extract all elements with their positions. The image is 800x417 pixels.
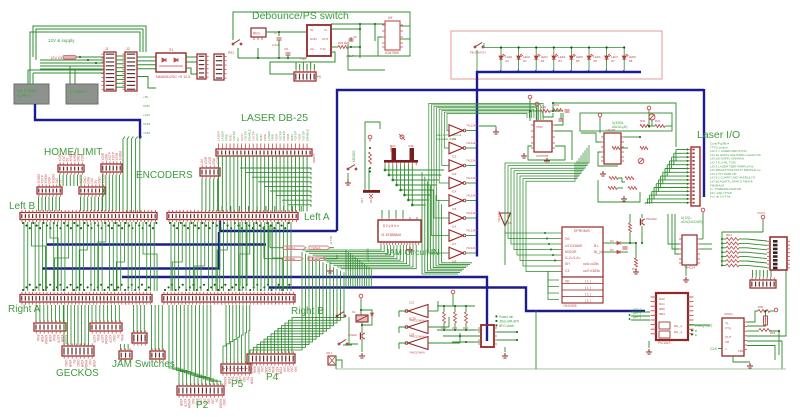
svg-text:RN1: RN1 [726, 233, 732, 237]
svg-text:74L2244: 74L2244 [466, 211, 477, 215]
svg-text:XSTP: XSTP [92, 335, 96, 343]
connector X1 DB25 pin labels [217, 129, 310, 149]
svg-text:CH: CH [310, 47, 314, 51]
junction U7 net [257, 57, 259, 59]
ic U2 EPROM [562, 227, 603, 277]
svg-text:JAM Switches: JAM Switches [112, 359, 175, 370]
svg-text:A 7.5V: A 7.5V [329, 236, 333, 244]
wire U12 nets [668, 214, 712, 276]
op-amp buffer T3 [449, 160, 463, 172]
svg-text:P5: P5 [231, 379, 244, 390]
svg-text:LIM: LIM [260, 367, 264, 373]
svg-text:ICM7555: ICM7555 [385, 51, 399, 55]
node JP2 list [496, 315, 519, 328]
op-amp buffer T4 [449, 177, 463, 189]
transistor Q2 [642, 219, 645, 225]
svg-text:74L2244: 74L2244 [466, 176, 477, 180]
ground flags [327, 268, 333, 273]
svg-text:YDIR: YDIR [80, 360, 84, 368]
bus B5 left A [220, 221, 337, 232]
wire mosfet riser [365, 122, 380, 190]
svg-text:IC7: IC7 [452, 242, 457, 246]
wire RightB staircase to P4 P5 P2 [169, 252, 344, 385]
wire LeftA bottom long drops [240, 222, 272, 286]
svg-text:74L2244: 74L2244 [466, 229, 477, 233]
ic U9 ICM7555 [385, 21, 400, 50]
svg-text:IC3: IC3 [452, 172, 457, 176]
junction eprom feeds [544, 232, 546, 234]
svg-text:R52: R52 [770, 331, 776, 335]
connector X1 DB25 strip [216, 149, 312, 156]
op-amp buffer T6 [449, 212, 463, 224]
vcc U11 [647, 106, 651, 112]
optocoupler S1 NMA0512SC [156, 53, 186, 72]
capacitor C12 [565, 110, 570, 112]
wire J2 to opto S1 [137, 57, 156, 88]
ic U5 ULN2803 JAM [378, 220, 421, 242]
net flag XGND [283, 246, 306, 250]
wire freq out [688, 324, 710, 326]
resistor R36 [608, 187, 617, 190]
svg-text:XHOM: XHOM [118, 151, 122, 161]
svg-text:XHOM: XHOM [223, 377, 227, 387]
connector JSW3 [150, 351, 165, 359]
connector RIGHT A [20, 295, 152, 303]
junction U11 [648, 125, 650, 127]
wire mid loop vertical [535, 311, 537, 369]
capacitor C14 [623, 247, 628, 249]
svg-text:Left A: Left A [304, 212, 330, 223]
svg-text:LIM: LIM [210, 399, 214, 405]
connector HL1 [58, 165, 84, 172]
resistor RJ2 [454, 312, 457, 323]
svg-text:YDIR: YDIR [48, 335, 52, 343]
component MOSFET bar [363, 190, 380, 193]
connector LASER IO [691, 147, 700, 206]
svg-text:R30: R30 [640, 119, 646, 123]
svg-text:V+: V+ [324, 28, 328, 32]
svg-text:RB0: RB0 [659, 307, 665, 311]
connector HL4 [79, 187, 105, 194]
wire top rail to 7555 [233, 12, 405, 41]
ic U10 7555 [534, 121, 552, 152]
net flag 3 [308, 257, 326, 261]
svg-text:GECKOS: GECKOS [56, 368, 99, 379]
ground U10 right [544, 158, 550, 163]
svg-text:MESOS: MESOS [352, 150, 356, 162]
wire DAC right nets [733, 297, 786, 369]
svg-text:K1: K1 [352, 310, 356, 314]
svg-text:J-DB25: J-DB25 [312, 153, 316, 163]
connector JP3 [750, 280, 776, 288]
svg-text:PN2222: PN2222 [646, 217, 657, 221]
vcc VCC2 [761, 215, 765, 221]
junction top rail dots [359, 23, 361, 25]
svg-text:P4: P4 [266, 372, 279, 383]
wire home-limit drops [39, 175, 218, 211]
svg-text:OUT: OUT [322, 37, 329, 41]
resistor R35 [625, 177, 634, 180]
svg-text:5V SUPPLY: 5V SUPPLY [69, 90, 88, 94]
svg-text:SIG: SIG [293, 367, 297, 373]
wire JAM ic bottom fan [302, 245, 416, 287]
capacitor C13 [559, 119, 564, 121]
op-amp buffer T7 [449, 230, 463, 242]
svg-text:REG: REG [253, 32, 260, 36]
connector J1 [104, 52, 116, 91]
svg-text:GND: GND [143, 104, 151, 108]
vcc JT resistors [451, 290, 455, 294]
svg-text:XLIM-A: XLIM-A [286, 246, 295, 250]
svg-text:oct1=o28s: oct1=o28s [583, 262, 599, 266]
svg-text:JRun MR-dFfi: JRun MR-dFfi [499, 320, 519, 324]
svg-text:SIG: SIG [191, 399, 195, 405]
svg-text:PB SWITCH: PB SWITCH [470, 51, 486, 55]
svg-text:R5: R5 [576, 59, 580, 63]
svg-text:2N222: 2N222 [348, 333, 357, 337]
svg-text:74L2244: 74L2244 [466, 141, 477, 145]
resistor RJ3 [465, 312, 468, 323]
svg-text:6C28: 6C28 [409, 317, 416, 321]
junction relay [361, 324, 363, 326]
wire RJ tops [437, 306, 481, 330]
svg-text:IC4: IC4 [452, 190, 457, 194]
bus B2 vertical LED switch [476, 71, 478, 257]
svg-text:XHOM: XHOM [101, 174, 105, 184]
svg-text:LIM: LIM [290, 367, 294, 373]
resistor R40 [629, 223, 632, 232]
capacitor C9 [349, 39, 354, 41]
svg-text:AUX(AUX2AR): AUX(AUX2AR) [681, 220, 702, 224]
ic U4 DAC [722, 318, 744, 356]
svg-text:B(_)A: B(_)A [594, 250, 603, 254]
svg-text:VCC2: VCC2 [757, 211, 765, 215]
component LED box [328, 356, 336, 365]
svg-text:JAM Circuit IN: JAM Circuit IN [385, 247, 439, 257]
wire relay nets [343, 300, 372, 352]
op-amp buffer T5 [449, 195, 463, 207]
svg-text:LIM: LIM [88, 360, 92, 366]
svg-text:YLIM: YLIM [143, 131, 151, 135]
switch PS1 [232, 40, 242, 45]
switch upper [336, 312, 346, 317]
dip switch S2 [770, 237, 787, 270]
junction U7 right [359, 28, 361, 30]
wire DB25-to-LeftA gap fill [222, 206, 301, 212]
resistor R37 [628, 187, 637, 190]
svg-text:[ 1 ]: [ 1 ] [585, 286, 591, 290]
wire J5 risers [296, 62, 314, 69]
connector J5 [294, 72, 316, 81]
svg-text:C28: C28 [409, 333, 415, 337]
svg-text:R4: R4 [558, 59, 562, 63]
svg-text:R(L_a: R(L_a [674, 324, 683, 328]
svg-text:ENABLE: ENABLE [305, 129, 309, 141]
wire U10 nets [528, 108, 572, 160]
svg-text:74L2244: 74L2244 [466, 159, 477, 163]
svg-text:ENCODERS: ENCODERS [136, 170, 193, 181]
wire JP2 right nets [443, 332, 517, 352]
frame LED panel [451, 31, 662, 79]
svg-text:+12V: +12V [143, 113, 150, 117]
svg-text:M32UR: M32UR [565, 250, 577, 254]
svg-text:RA0: RA0 [659, 297, 665, 301]
connector P5 [221, 364, 251, 373]
wire U7 right nets [270, 29, 360, 74]
net flag XVCC [309, 246, 330, 250]
net flag 2 [283, 257, 303, 261]
svg-text:R18: R18 [369, 197, 373, 203]
diode D5 [617, 250, 620, 253]
svg-text:D5: D5 [610, 248, 614, 252]
transistor Q3 2N2222 [362, 333, 365, 339]
svg-text:CLK: CLK [710, 347, 718, 351]
junction JP2 [516, 331, 518, 333]
op-amp buffer T1 [449, 125, 463, 137]
svg-text:U2 EXAMS: U2 EXAMS [565, 244, 583, 248]
capacitor C8 [286, 53, 291, 55]
vcc mosfet [368, 135, 372, 141]
svg-text:ENA: ENA [36, 335, 40, 342]
bus B4 main horizontal [337, 90, 704, 231]
connector GECKO1 [34, 323, 66, 331]
svg-text:I1,2=/1,A=: I1,2=/1,A= [565, 256, 581, 260]
svg-text:OUT: OUT [725, 335, 732, 339]
junction power row dots [87, 59, 89, 61]
svg-text:T-ID: T-ID [320, 47, 326, 51]
svg-text:U9: U9 [388, 16, 392, 20]
svg-text:[ 1 ]: [ 1 ] [585, 280, 591, 284]
resistor R31 [655, 125, 665, 128]
svg-text:LASER DB-25: LASER DB-25 [241, 112, 308, 124]
svg-text:R7: R7 [611, 59, 615, 63]
node laser io net list [710, 142, 761, 199]
ground U12 [683, 277, 689, 282]
resistor RJ1 [443, 312, 446, 323]
svg-text:YDIR: YDIR [279, 367, 283, 375]
connector GECKO3 [62, 346, 94, 356]
op-amp JT3 [408, 337, 428, 350]
svg-text:IN: IN [310, 28, 313, 32]
svg-text:P2: P2 [196, 400, 209, 411]
svg-text:YDIR: YDIR [80, 153, 84, 161]
svg-text:CTg: CTg [725, 326, 731, 330]
diode D4 [617, 241, 620, 244]
svg-text:YDIR: YDIR [249, 367, 253, 375]
svg-text:PS1: PS1 [228, 51, 234, 55]
wire encoder staircase [384, 165, 444, 206]
wire RN to DIP [722, 221, 767, 267]
resistor R19 vertical [369, 152, 372, 164]
ic U12 74HC14 [682, 235, 697, 265]
wire J1-J2 links [116, 56, 125, 87]
wire led box [336, 360, 342, 368]
ground U11 b [621, 196, 627, 201]
svg-text:C9: C9 [353, 35, 357, 39]
junction eprom right [635, 242, 637, 244]
ground JP2 [502, 353, 508, 358]
op-amp buffer T2 [449, 142, 463, 154]
svg-text:G0: G0 [565, 237, 570, 241]
svg-text:74HC595: 74HC595 [563, 304, 577, 308]
wire eprom right nets [603, 214, 642, 258]
svg-text:NMA0512SC +5 12.0: NMA0512SC +5 12.0 [156, 75, 190, 79]
svg-text:FB1: FB1 [738, 349, 744, 353]
svg-text:YDIR: YDIR [249, 377, 253, 385]
wire DB25 fanout [219, 156, 312, 212]
ground U10 left [521, 153, 527, 158]
svg-text:R50: R50 [758, 305, 764, 309]
ground eprom [633, 269, 639, 274]
svg-text:YDIR: YDIR [40, 335, 44, 343]
svg-text:J2: J2 [126, 47, 130, 51]
resistor R20 [338, 46, 348, 49]
capacitor C7 [277, 38, 282, 40]
svg-text:GND: GND [310, 37, 318, 41]
svg-text:7g: 7g [725, 321, 729, 325]
vcc DAC pin [774, 308, 778, 312]
svg-text:41 8T8888e8: 41 8T8888e8 [381, 233, 401, 237]
connector J4 [214, 54, 224, 80]
wire buffer lower nested loops [422, 172, 472, 274]
svg-text:OK1: OK1 [326, 351, 332, 355]
svg-text:U(MA): U(MA) [724, 312, 733, 316]
wire LED rail [483, 43, 485, 48]
wire buffer input bundle upper [429, 103, 543, 253]
svg-text:YLIM-A: YLIM-A [311, 246, 320, 250]
vcc U10 [535, 102, 539, 108]
resistor R25 [540, 110, 550, 113]
svg-text:Laser I/O: Laser I/O [697, 129, 740, 141]
wire right loop vertical [785, 270, 787, 297]
svg-text:C22: C22 [409, 301, 415, 305]
svg-text:LIM: LIM [286, 367, 290, 373]
svg-text:GND: GND [112, 335, 116, 343]
resistor R52 [759, 329, 771, 332]
svg-text:SUPPLY: SUPPLY [17, 94, 31, 98]
svg-text:D4: D4 [610, 239, 614, 243]
wire flags feeds from LeftA [264, 226, 270, 259]
wire flags feed [264, 248, 337, 259]
bus B6 [47, 243, 266, 245]
svg-text:R(L_a: R(L_a [674, 330, 683, 334]
svg-text:Power din: Power din [499, 315, 513, 319]
svg-text:R6: R6 [594, 59, 598, 63]
wire switch to U7 net [238, 32, 307, 58]
connector HL2 [101, 164, 122, 172]
vcc relay VCC [359, 294, 363, 300]
vcc VCC mid [598, 113, 602, 119]
svg-text:YHOME: YHOME [310, 257, 320, 261]
svg-text:7555: 7555 [536, 125, 543, 129]
svg-text:R1: R1 [506, 59, 510, 63]
svg-text:J1: J1 [105, 47, 109, 51]
svg-text:74L2244: 74L2244 [466, 246, 477, 250]
ic U3 PIC16 [656, 293, 688, 340]
svg-text:S1: S1 [169, 48, 173, 52]
svg-text:AIAJLL(AI): AIAJLL(AI) [612, 125, 627, 129]
svg-text:b m ub LN F bb: b m ub LN F bb [710, 195, 731, 199]
connector ENC1 [200, 168, 220, 176]
svg-text:12V & supply: 12V & supply [48, 38, 75, 43]
svg-text:XSTP: XSTP [56, 335, 60, 343]
svg-text:R17: R17 [360, 197, 364, 203]
connector JSW2 [119, 351, 132, 359]
fuse F1 [63, 56, 76, 60]
svg-text:oct7=t383b: oct7=t383b [583, 269, 600, 273]
gray box SUPPLY2 [66, 84, 98, 104]
svg-text:74L2244: 74L2244 [497, 211, 501, 222]
svg-text:74HC(2)4(4): 74HC(2)4(4) [409, 351, 425, 355]
resistor network RN1 [721, 238, 747, 267]
wire 7555 right loop [348, 12, 410, 70]
connector J2 [125, 52, 137, 91]
svg-text:1.0k: 1.0k [541, 105, 547, 109]
svg-text:XSTP: XSTP [183, 399, 187, 407]
wire power rows to J1 [40, 57, 104, 69]
bus B3 LED row [476, 71, 641, 73]
wire gray box risers [28, 66, 104, 84]
connector ENC TOP [392, 148, 397, 160]
svg-text:XHOM: XHOM [187, 399, 191, 409]
diode D12 [371, 313, 374, 316]
svg-text:C8: C8 [284, 47, 288, 51]
svg-text:PIC16LF..: PIC16LF.. [658, 341, 672, 345]
resistor R30 [640, 125, 650, 128]
svg-text:12V POWER: 12V POWER [17, 89, 37, 93]
svg-text:XHOME: XHOME [285, 257, 295, 261]
connector LEFT B [20, 213, 157, 220]
svg-text:ICM7555: ICM7555 [536, 154, 549, 158]
trimpot TP1 [638, 158, 644, 164]
ground JAM [407, 247, 413, 252]
wire T9 down [504, 230, 506, 266]
svg-text:[ 1 ]: [ 1 ] [585, 299, 591, 303]
wire geckos feed [36, 305, 162, 350]
ground U11 a [600, 171, 606, 176]
wire EPROM left feeds [548, 271, 559, 300]
resistor R32 [640, 147, 648, 150]
connector JSW1 [132, 333, 147, 343]
op-amp JT1 [408, 305, 428, 318]
svg-text:B L: B L [594, 244, 599, 248]
wire JT inputs [399, 301, 460, 349]
connector HL3 [37, 187, 62, 194]
svg-text:74L2244: 74L2244 [466, 194, 477, 198]
svg-text:ENA: ENA [120, 335, 124, 342]
svg-text:74L2244: 74L2244 [466, 124, 477, 128]
svg-text:XHOM: XHOM [104, 335, 108, 345]
svg-text:C3: C3 [565, 269, 569, 273]
ground bus stub [479, 125, 496, 127]
svg-text:XHOM: XHOM [218, 399, 222, 409]
junction comparator top [552, 102, 554, 104]
switch PB [474, 43, 484, 48]
connector LEFT A [167, 213, 298, 220]
svg-text:RB4: RB4 [659, 312, 665, 316]
svg-text:GND: GND [222, 399, 226, 407]
svg-text:ENA: ENA [253, 367, 257, 374]
svg-text:+5V: +5V [143, 95, 148, 99]
connector P2 [177, 386, 224, 395]
svg-text:ENA: ENA [96, 335, 100, 342]
svg-text:XSTP: XSTP [100, 335, 104, 343]
connector P4 [247, 354, 295, 363]
gray box SUPPLY1 [14, 84, 49, 104]
svg-text:XLIM: XLIM [143, 122, 151, 126]
component R51 vertical [764, 316, 768, 325]
wire comparator output bundle [505, 145, 589, 272]
